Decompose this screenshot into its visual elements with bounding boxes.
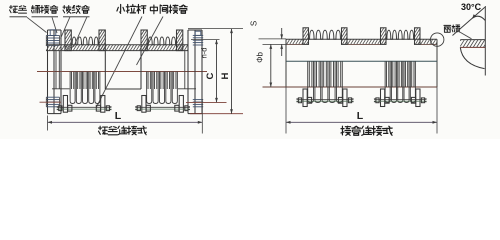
dimension H line <box>231 29 233 114</box>
pipe wall strip (section hatch) <box>46 44 188 46</box>
dimension extension flange bottom <box>190 113 243 115</box>
left flange top bolt <box>46 35 59 37</box>
svg-text:30°C: 30°C <box>461 2 482 12</box>
svg-text:L: L <box>115 110 122 122</box>
right bellows 1 crest wave <box>309 30 342 39</box>
dimension L line <box>48 121 203 123</box>
label 中间接管 (middle pipe) <box>150 5 187 14</box>
right flange stud end <box>195 31 201 35</box>
dimension extension bolt circle top <box>191 39 220 41</box>
pipe wall hatch segments <box>286 43 303 45</box>
svg-text:C: C <box>205 72 216 79</box>
left flange bottom bolt <box>46 96 59 98</box>
right bellows 1 collars <box>303 28 309 45</box>
label 端接管 (end pipe) <box>32 6 58 14</box>
left flange stud end <box>50 30 56 36</box>
dimension S arrows <box>281 28 283 39</box>
bellows 1 crest wave <box>71 37 99 45</box>
bellows 2 left collar <box>141 30 147 51</box>
bellows 1 left collar <box>65 30 71 51</box>
leader to middle pipe <box>137 17 164 66</box>
left flange plates <box>47 30 49 114</box>
label 小拉杆 (tie rod) <box>117 5 146 14</box>
caption 法兰连接式 <box>99 126 147 135</box>
pipe mid line <box>286 60 437 62</box>
leader to flange <box>27 17 47 32</box>
pipe top line <box>286 38 437 40</box>
bolt circle line left <box>40 101 62 103</box>
label 波纹管 (bellows) <box>63 6 89 14</box>
dimension b extension <box>263 43 287 45</box>
leader to bellows collar <box>61 17 71 39</box>
dimension b line <box>270 44 272 87</box>
detail bevel angle line <box>453 7 485 35</box>
middle pipe body <box>104 51 106 89</box>
dimension S extension <box>259 38 287 40</box>
dimension L right extensions <box>285 87 287 134</box>
pipe right end face <box>436 39 438 87</box>
dimension C line <box>216 40 218 103</box>
dimension L left extension <box>47 116 49 131</box>
tie rod assembly bellows 2 <box>142 96 146 113</box>
dimension extension flange top <box>188 28 243 30</box>
right end pipe bottom <box>178 88 196 90</box>
bellows 2 lower convolutions <box>147 72 178 104</box>
svg-text:H: H <box>220 72 231 79</box>
right bellows 2 lower convolutions <box>385 61 415 102</box>
centerline <box>37 71 207 73</box>
detail angle arc <box>472 16 485 20</box>
pipe left end face <box>285 39 287 87</box>
detail boundary arc <box>460 47 484 68</box>
bellows 2 right collar <box>177 30 183 51</box>
svg-text:S: S <box>250 21 259 26</box>
leader to bellows wave <box>74 17 88 47</box>
left end pipe bottom <box>55 51 57 89</box>
svg-text:L: L <box>357 110 364 122</box>
svg-text:Φb: Φb <box>256 52 265 63</box>
tie rod assembly right bellows 2 <box>381 89 385 107</box>
svg-text:n-d: n-d <box>200 48 209 59</box>
label 两端 (both ends) <box>444 25 460 32</box>
pipe bottom line <box>263 86 438 88</box>
right bellows 2 crest wave <box>386 30 415 39</box>
leader to tie rod <box>97 17 143 108</box>
right bellows 2 collars <box>381 28 387 45</box>
detail bevel end face line <box>484 6 486 76</box>
detail wall band <box>460 39 485 41</box>
detail circle marker <box>431 33 444 46</box>
dimension L right extension <box>201 99 203 134</box>
label 法兰 (flange) <box>10 6 27 14</box>
right bellows 1 lower convolutions <box>308 61 343 102</box>
leader to end pipe <box>52 17 57 33</box>
caption 接管连接式 <box>341 126 392 135</box>
bellows 1 right collar <box>99 30 105 51</box>
bellows 2 crest wave <box>147 37 176 45</box>
right flange plates <box>187 30 189 114</box>
tie rod assembly right bellows 1 <box>303 89 307 107</box>
dimension L right line <box>286 121 437 123</box>
dimension extension bolt circle bottom <box>186 101 227 103</box>
right flange bottom bolt <box>193 99 203 101</box>
leader from 两端 <box>458 31 472 39</box>
tie rod assembly bellows 1 <box>63 96 67 113</box>
right flange top bolt <box>193 34 203 36</box>
bellows 1 lower convolutions <box>70 72 100 104</box>
